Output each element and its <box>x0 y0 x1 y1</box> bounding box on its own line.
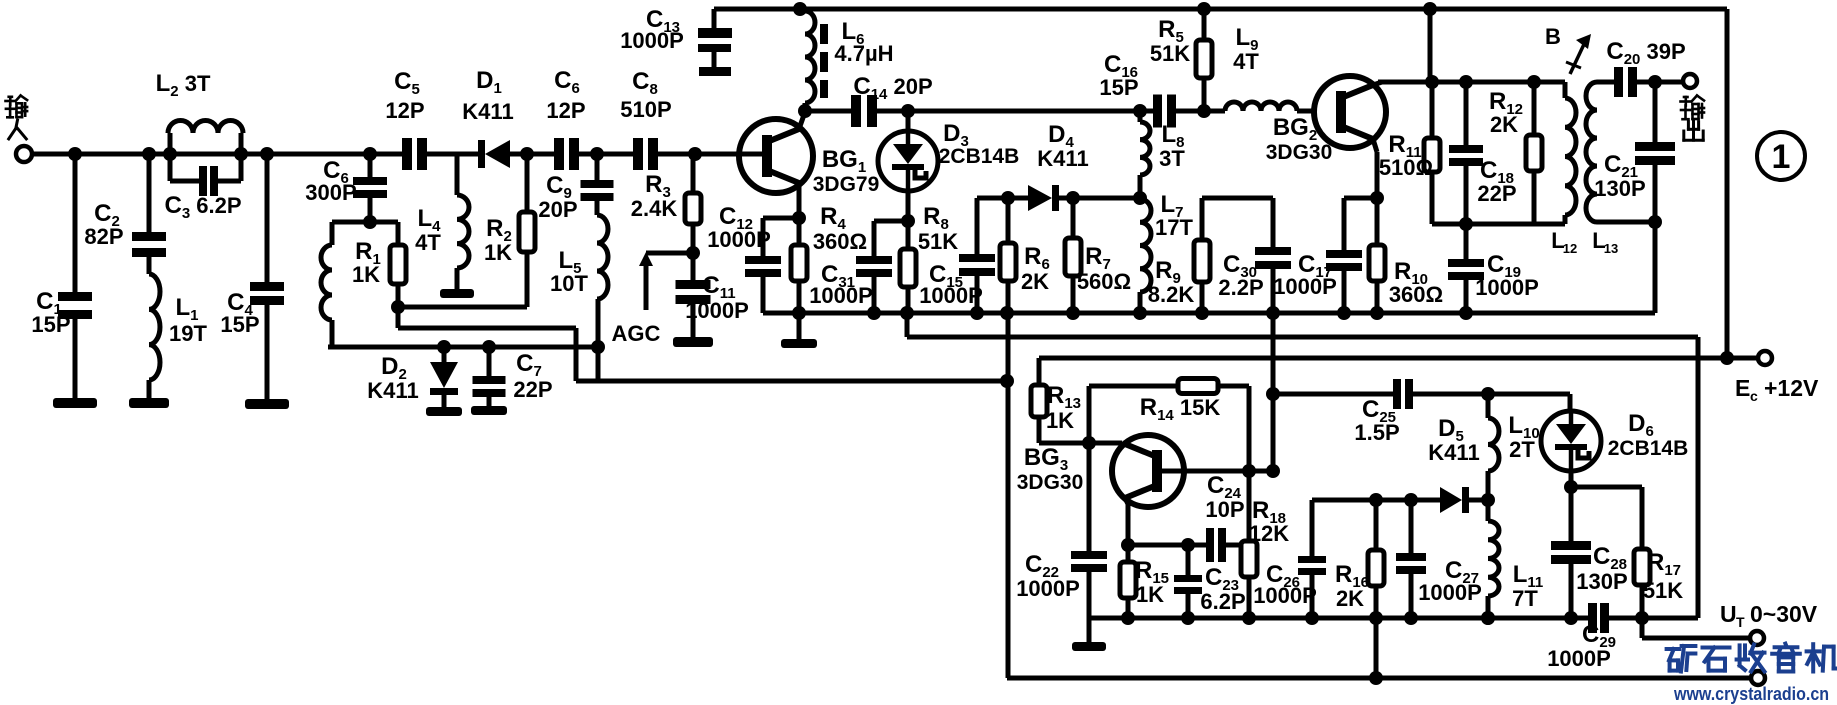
svg-text:3T: 3T <box>1159 146 1185 171</box>
svg-text:R14 15K: R14 15K <box>1140 394 1221 424</box>
svg-text:300P: 300P <box>305 180 356 205</box>
svg-text:www.crystalradio.cn: www.crystalradio.cn <box>1673 684 1829 704</box>
svg-text:6.2P: 6.2P <box>1200 589 1245 614</box>
svg-text:L2 3T: L2 3T <box>156 70 211 100</box>
svg-text:D6: D6 <box>1628 410 1654 440</box>
svg-text:10P: 10P <box>1205 497 1244 522</box>
svg-text:3DG30: 3DG30 <box>1017 471 1084 494</box>
svg-text:C20 39P: C20 39P <box>1606 38 1685 68</box>
svg-text:1000P: 1000P <box>1253 583 1317 608</box>
svg-text:T: T <box>1736 614 1745 630</box>
svg-text:C7: C7 <box>516 350 542 380</box>
svg-text:1000P: 1000P <box>620 28 684 53</box>
svg-text:2K: 2K <box>1490 112 1518 137</box>
svg-text:15P: 15P <box>220 312 259 337</box>
svg-text:1000P: 1000P <box>707 227 771 252</box>
svg-text:510P: 510P <box>620 97 671 122</box>
svg-text:1K: 1K <box>484 240 512 265</box>
svg-text:c: c <box>1750 388 1758 404</box>
svg-text:10T: 10T <box>550 271 588 296</box>
svg-text:51K: 51K <box>1643 578 1683 603</box>
svg-text:13: 13 <box>1604 241 1618 256</box>
svg-text:360Ω: 360Ω <box>1389 282 1443 307</box>
svg-text:2CB14B: 2CB14B <box>1608 437 1689 460</box>
svg-text:K411: K411 <box>1428 440 1479 465</box>
svg-text:12K: 12K <box>1249 521 1289 546</box>
svg-text:E: E <box>1735 375 1750 401</box>
svg-text:19T: 19T <box>169 321 207 346</box>
svg-text:BG2: BG2 <box>1273 114 1317 144</box>
svg-text:L1: L1 <box>175 294 198 324</box>
svg-text:2K: 2K <box>1336 586 1364 611</box>
svg-text:B: B <box>1545 24 1561 49</box>
svg-text:K411: K411 <box>367 378 418 403</box>
svg-text:C3 6.2P: C3 6.2P <box>164 192 241 222</box>
svg-text:1000P: 1000P <box>809 283 873 308</box>
svg-text:22P: 22P <box>513 377 552 402</box>
svg-text:12: 12 <box>1563 241 1577 256</box>
svg-text:17T: 17T <box>1155 215 1193 240</box>
svg-text:20P: 20P <box>538 197 577 222</box>
svg-text:C6: C6 <box>554 67 580 97</box>
svg-text:C8: C8 <box>632 68 658 98</box>
svg-text:C5: C5 <box>394 68 420 98</box>
svg-text:360Ω: 360Ω <box>813 229 867 254</box>
svg-text:1: 1 <box>1772 138 1791 176</box>
svg-text:+12V: +12V <box>1764 375 1819 401</box>
svg-text:2CB14B: 2CB14B <box>939 145 1020 168</box>
svg-text:8.2K: 8.2K <box>1148 282 1195 307</box>
svg-text:D1: D1 <box>476 67 502 97</box>
svg-text:1K: 1K <box>352 262 380 287</box>
svg-text:BG1: BG1 <box>822 146 866 176</box>
svg-text:130P: 130P <box>1576 569 1627 594</box>
svg-text:82P: 82P <box>84 224 123 249</box>
svg-text:1000P: 1000P <box>919 283 983 308</box>
svg-text:2.4K: 2.4K <box>631 196 678 221</box>
svg-text:15P: 15P <box>31 312 70 337</box>
svg-text:51K: 51K <box>1150 41 1190 66</box>
svg-text:1000P: 1000P <box>1418 580 1482 605</box>
svg-text:560Ω: 560Ω <box>1077 269 1131 294</box>
svg-text:K411: K411 <box>462 99 513 124</box>
svg-text:1000P: 1000P <box>1475 275 1539 300</box>
svg-text:C14 20P: C14 20P <box>853 73 932 103</box>
svg-text:BG3: BG3 <box>1024 444 1068 474</box>
svg-text:1000P: 1000P <box>1273 274 1337 299</box>
svg-text:12P: 12P <box>546 98 585 123</box>
svg-text:510Ω: 510Ω <box>1379 155 1433 180</box>
svg-text:15P: 15P <box>1099 75 1138 100</box>
svg-text:U: U <box>1720 601 1737 627</box>
svg-text:7T: 7T <box>1512 586 1538 611</box>
svg-text:1000P: 1000P <box>1547 646 1611 671</box>
svg-text:AGC: AGC <box>612 321 661 346</box>
svg-text:R17: R17 <box>1647 549 1681 579</box>
svg-text:4T: 4T <box>415 230 441 255</box>
svg-text:51K: 51K <box>918 229 958 254</box>
svg-text:2T: 2T <box>1509 437 1535 462</box>
svg-text:4.7µH: 4.7µH <box>834 41 893 66</box>
svg-text:3DG79: 3DG79 <box>813 173 880 196</box>
svg-text:4T: 4T <box>1233 49 1259 74</box>
svg-text:22P: 22P <box>1477 181 1516 206</box>
svg-text:2.2P: 2.2P <box>1218 275 1263 300</box>
svg-text:130P: 130P <box>1594 176 1645 201</box>
svg-text:1000P: 1000P <box>685 298 749 323</box>
svg-text:1.5P: 1.5P <box>1354 420 1399 445</box>
svg-text:0~30V: 0~30V <box>1750 601 1818 627</box>
svg-text:3DG30: 3DG30 <box>1266 141 1333 164</box>
svg-text:1K: 1K <box>1046 408 1074 433</box>
svg-text:12P: 12P <box>385 98 424 123</box>
svg-text:2K: 2K <box>1021 269 1049 294</box>
svg-text:1000P: 1000P <box>1016 576 1080 601</box>
svg-text:1K: 1K <box>1136 582 1164 607</box>
svg-text:K411: K411 <box>1037 146 1088 171</box>
